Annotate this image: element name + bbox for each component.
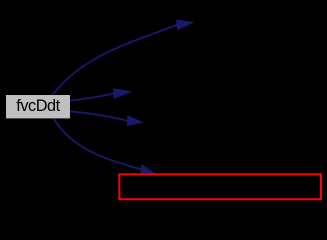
svg-text:fvcDdt: fvcDdt <box>16 97 60 115</box>
node fvcDdt (gray box) <box>6 95 71 119</box>
edge 2: upper middle arrow <box>70 89 131 101</box>
edge 1: big top curve from fvcDdt to upper-right node <box>53 20 193 95</box>
truncated node (red rectangle) <box>119 174 321 199</box>
edge 3: lower middle arrow <box>70 111 142 125</box>
edge 4: bottom curve from fvcDdt to red node <box>54 119 154 174</box>
